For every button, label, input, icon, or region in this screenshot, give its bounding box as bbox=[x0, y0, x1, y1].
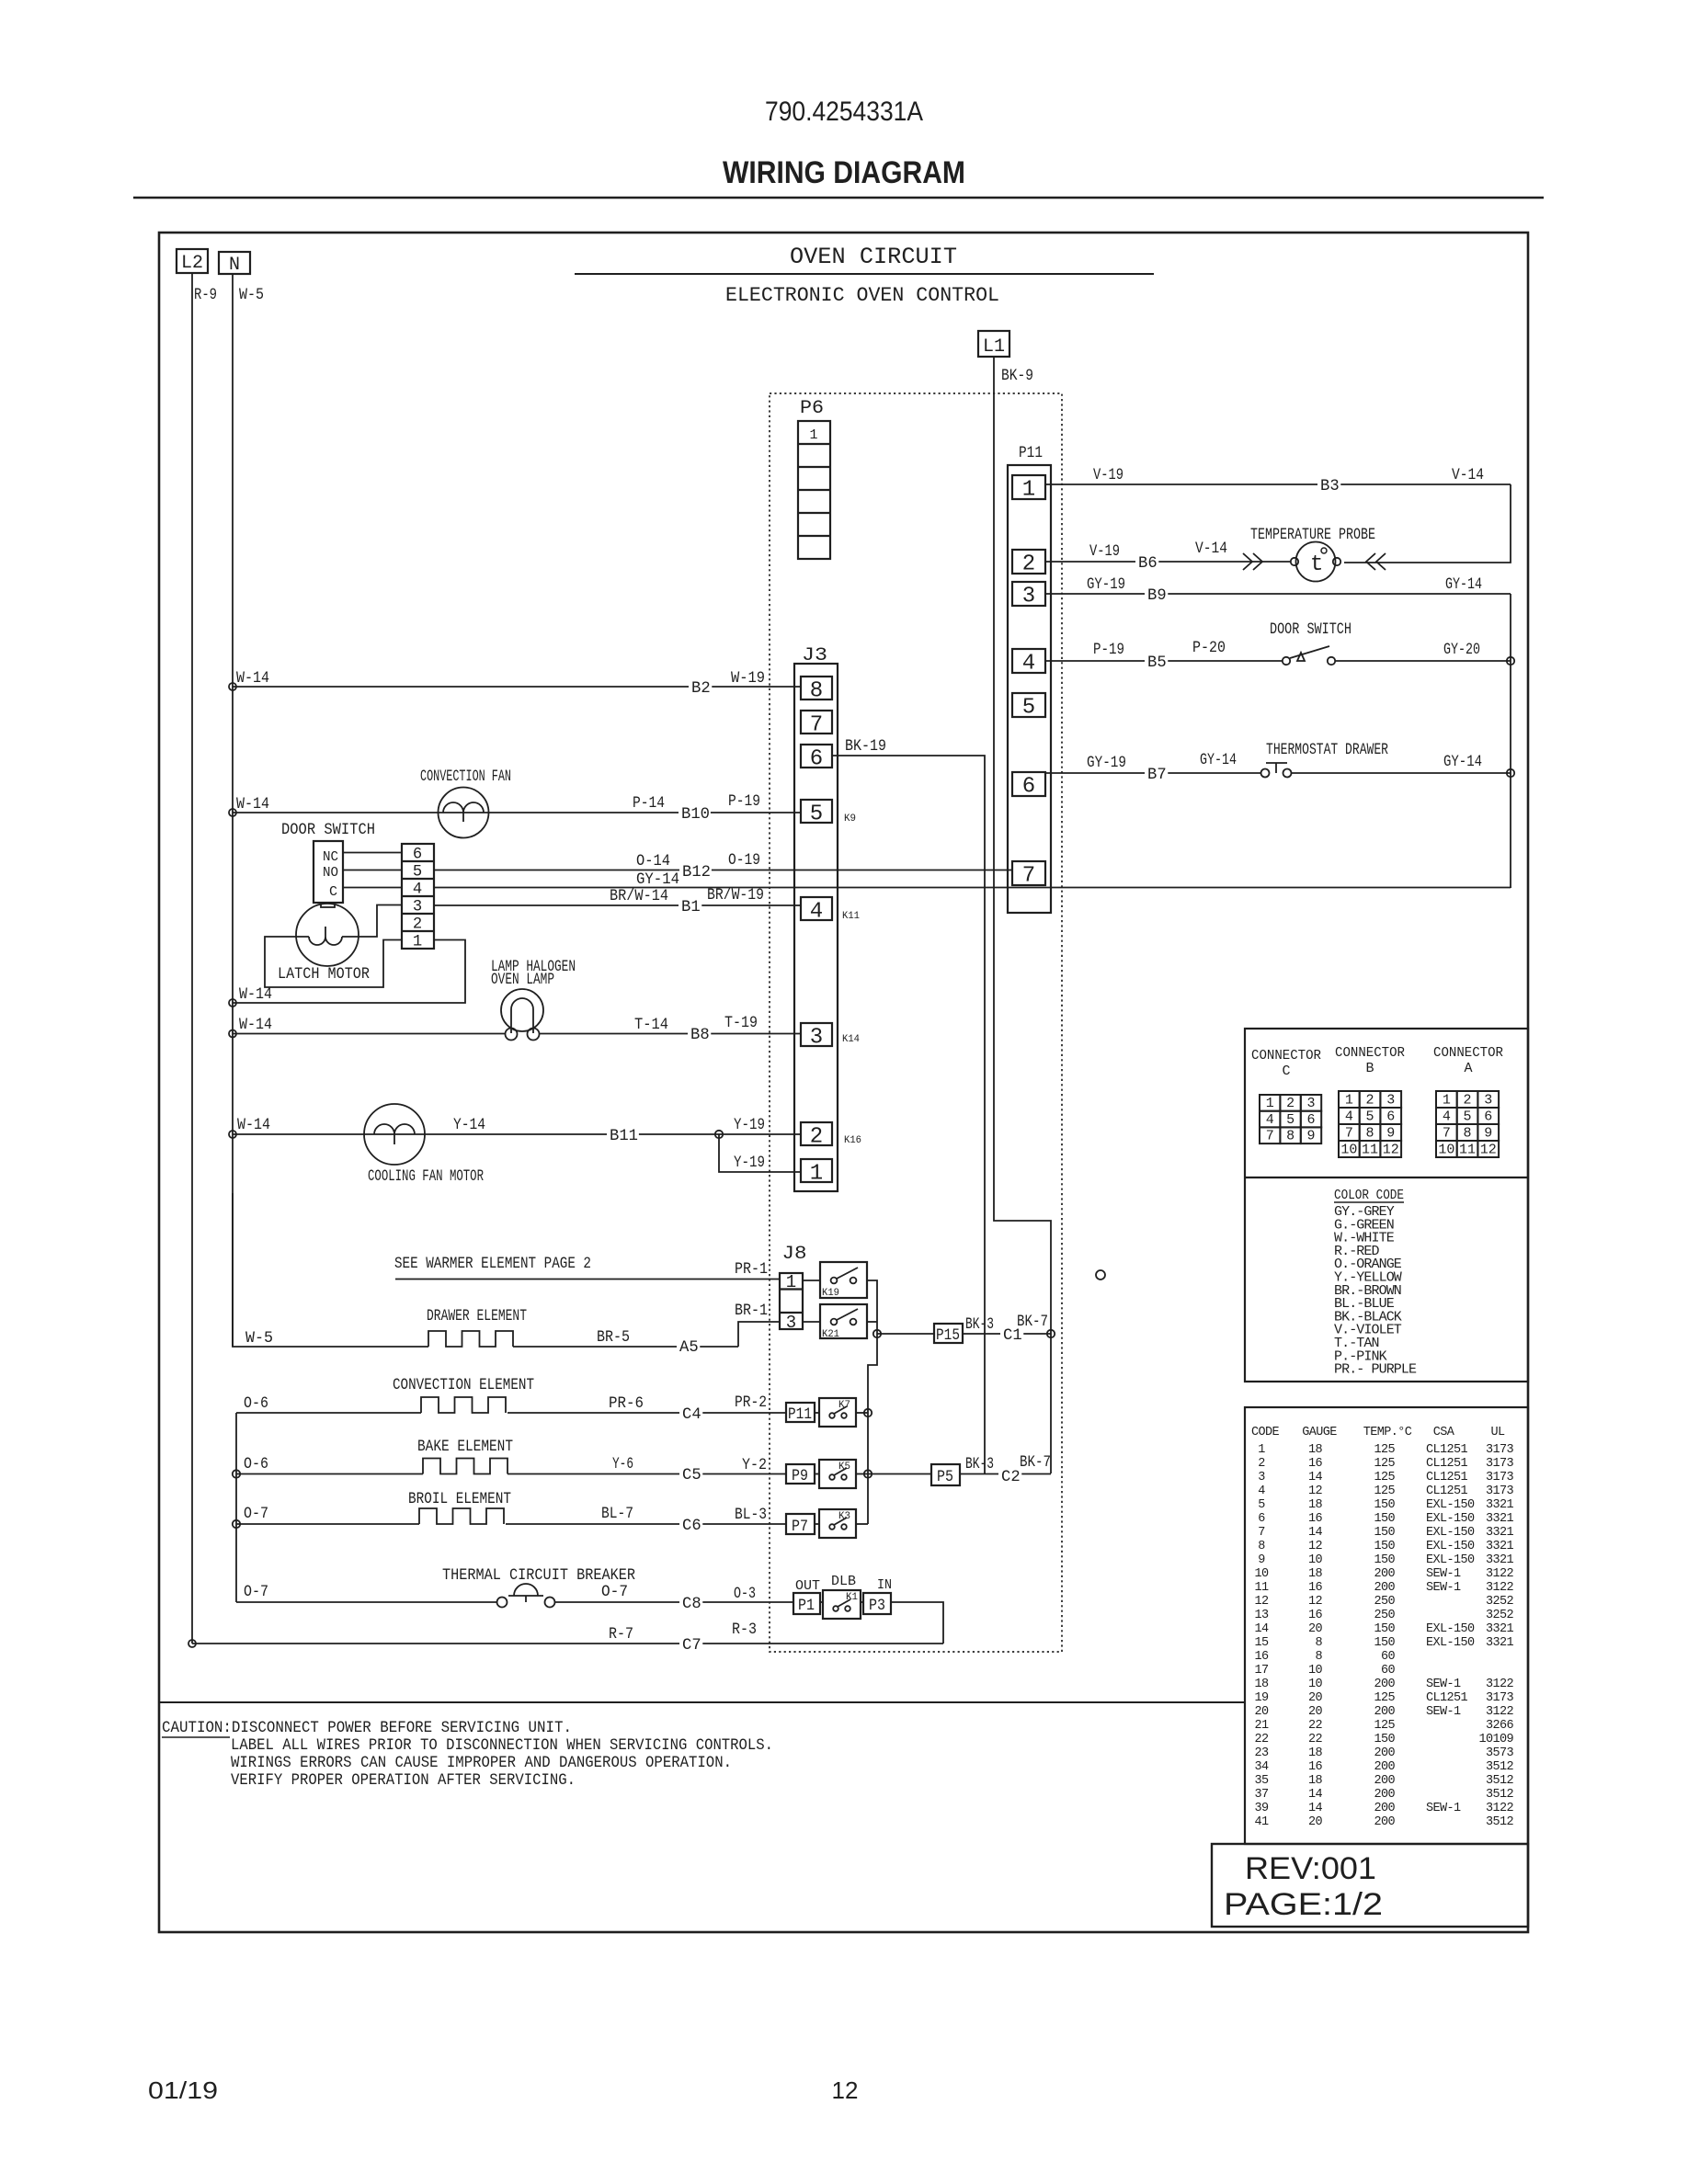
svg-text:3: 3 bbox=[786, 1313, 796, 1333]
svg-text:K11: K11 bbox=[842, 911, 860, 922]
svg-text:1: 1 bbox=[809, 427, 817, 443]
wire convection element PR-6 C4 PR-2 bbox=[236, 1412, 421, 1414]
svg-text:3252: 3252 bbox=[1486, 1595, 1514, 1609]
thermostat drawer T symbol bbox=[1266, 762, 1287, 764]
svg-text:18: 18 bbox=[1308, 1567, 1323, 1581]
svg-text:3321: 3321 bbox=[1486, 1498, 1514, 1512]
svg-text:Y-2: Y-2 bbox=[742, 1457, 767, 1474]
svg-text:R-9: R-9 bbox=[194, 287, 217, 304]
svg-text:7: 7 bbox=[1345, 1126, 1353, 1142]
svg-text:150: 150 bbox=[1374, 1512, 1395, 1526]
svg-text:P-14: P-14 bbox=[633, 795, 665, 813]
temperature probe terminal right bbox=[1333, 558, 1340, 565]
svg-text:1: 1 bbox=[1258, 1443, 1265, 1457]
svg-text:W-19: W-19 bbox=[731, 670, 765, 688]
svg-text:14: 14 bbox=[1308, 1788, 1323, 1802]
svg-text:150: 150 bbox=[1374, 1526, 1395, 1540]
svg-text:W-5: W-5 bbox=[245, 1330, 273, 1348]
latch motor winding bbox=[296, 927, 359, 945]
wire R-7 C7 R-3 bbox=[192, 1643, 943, 1644]
svg-text:6: 6 bbox=[1306, 1112, 1315, 1128]
plug P11 relay box bbox=[786, 1403, 815, 1422]
connector pinout panel divider bbox=[1245, 1177, 1528, 1178]
svg-text:O-7: O-7 bbox=[244, 1584, 268, 1601]
relay K3 box bbox=[819, 1509, 856, 1538]
connector P11 pin 3 bbox=[1012, 582, 1045, 606]
svg-text:t: t bbox=[1310, 552, 1323, 577]
wire W-14 riser to cell 1 right bbox=[233, 940, 465, 1004]
wire Y-19 branch to J3 pin 1 bbox=[719, 1134, 801, 1172]
label A5 bbox=[677, 1338, 700, 1354]
svg-text:1: 1 bbox=[810, 1162, 823, 1187]
color code underline bbox=[1334, 1201, 1404, 1203]
wire bake element Y-6 C5 Y-2 bbox=[236, 1473, 423, 1475]
svg-text:C2: C2 bbox=[1001, 1469, 1021, 1486]
page 2 reference circle bbox=[1096, 1270, 1105, 1280]
svg-text:CSA: CSA bbox=[1433, 1426, 1455, 1439]
svg-text:BL-3: BL-3 bbox=[735, 1507, 767, 1524]
convection fan motor winding bbox=[443, 802, 484, 822]
svg-text:12: 12 bbox=[1308, 1540, 1323, 1553]
svg-text:10: 10 bbox=[1340, 1143, 1357, 1158]
caution divider line bbox=[159, 1701, 1245, 1703]
wire J8 pin1 to K19 bbox=[803, 1280, 820, 1281]
svg-text:3: 3 bbox=[1484, 1093, 1492, 1109]
svg-text:L2: L2 bbox=[181, 253, 203, 274]
label C5 bbox=[679, 1466, 702, 1482]
wire P15 BK-3 C1 BK-7 bbox=[963, 1333, 1051, 1335]
svg-text:4: 4 bbox=[413, 882, 422, 899]
svg-text:34: 34 bbox=[1254, 1760, 1269, 1774]
svg-text:11: 11 bbox=[1254, 1581, 1269, 1595]
wire C2 to P5 bbox=[868, 1473, 931, 1475]
svg-text:9: 9 bbox=[1484, 1126, 1492, 1142]
wire BR/W-14 B1 BR/W-19 to J3 pin 4 bbox=[434, 904, 801, 906]
connector J3 pin 1 bbox=[801, 1159, 832, 1182]
svg-text:200: 200 bbox=[1374, 1760, 1395, 1774]
svg-text:W-14: W-14 bbox=[236, 796, 269, 813]
wire C to cell 4 bbox=[343, 887, 402, 889]
svg-text:GY-14: GY-14 bbox=[1445, 576, 1482, 594]
connector P11 pin 5 bbox=[1012, 693, 1045, 717]
label C8 bbox=[679, 1595, 702, 1610]
junction O-6 bake row bbox=[233, 1470, 240, 1477]
svg-text:1: 1 bbox=[1345, 1093, 1353, 1109]
svg-text:8: 8 bbox=[1315, 1650, 1322, 1664]
svg-text:CONVECTION FAN: CONVECTION FAN bbox=[420, 768, 511, 786]
wire P3 down to R-3 wire bbox=[891, 1602, 943, 1644]
svg-text:PR-1: PR-1 bbox=[735, 1261, 768, 1279]
svg-text:3: 3 bbox=[1306, 1096, 1315, 1111]
svg-text:16: 16 bbox=[1254, 1650, 1269, 1664]
caution underline bbox=[162, 1736, 230, 1738]
relay K1 box bbox=[823, 1590, 861, 1619]
svg-text:ELECTRONIC OVEN CONTROL: ELECTRONIC OVEN CONTROL bbox=[725, 284, 999, 307]
node L2 bottom bbox=[188, 1640, 196, 1647]
svg-text:14: 14 bbox=[1308, 1471, 1323, 1484]
label C1 bbox=[1000, 1326, 1023, 1342]
relay K7 contacts bbox=[829, 1413, 835, 1418]
thermal circuit breaker contact left bbox=[497, 1598, 508, 1608]
svg-text:41: 41 bbox=[1254, 1815, 1269, 1829]
svg-text:3573: 3573 bbox=[1486, 1746, 1514, 1760]
svg-text:4: 4 bbox=[810, 900, 823, 925]
svg-text:20: 20 bbox=[1308, 1691, 1323, 1705]
door switch to latch motor link bbox=[321, 903, 335, 907]
bake element heater symbol bbox=[423, 1459, 508, 1474]
svg-text:P-19: P-19 bbox=[728, 793, 760, 811]
svg-text:22: 22 bbox=[1308, 1733, 1323, 1746]
svg-text:8: 8 bbox=[1315, 1636, 1322, 1650]
svg-text:60: 60 bbox=[1381, 1664, 1396, 1678]
wire broil element BL-7 C6 BL-3 bbox=[236, 1523, 419, 1525]
connector A pin grid bbox=[1436, 1091, 1457, 1108]
connector J3 pin 3 bbox=[801, 1023, 832, 1046]
junction Y-19 split bbox=[715, 1131, 723, 1138]
svg-text:39: 39 bbox=[1254, 1802, 1269, 1815]
connector P11 pin 4 bbox=[1012, 649, 1045, 673]
svg-text:UL: UL bbox=[1490, 1426, 1505, 1439]
title rule bbox=[133, 197, 1544, 199]
wire C1 to P15 bbox=[877, 1333, 934, 1335]
junction GY-14 on right rail bbox=[1507, 769, 1514, 777]
svg-text:BAKE ELEMENT: BAKE ELEMENT bbox=[417, 1439, 513, 1456]
svg-text:B3: B3 bbox=[1320, 478, 1340, 495]
wire GY-14 long to right rail bbox=[434, 887, 1511, 890]
wire W-14 Y-14 B11 to junction bbox=[233, 1133, 801, 1135]
svg-text:A: A bbox=[1464, 1061, 1472, 1076]
svg-text:3173: 3173 bbox=[1486, 1443, 1514, 1457]
latch motor circle bbox=[296, 904, 359, 966]
svg-text:3122: 3122 bbox=[1486, 1705, 1514, 1719]
svg-text:O-3: O-3 bbox=[734, 1586, 756, 1603]
svg-text:3173: 3173 bbox=[1486, 1471, 1514, 1484]
wire K5 output bbox=[856, 1473, 868, 1475]
svg-text:K16: K16 bbox=[844, 1135, 861, 1146]
svg-text:PR-2: PR-2 bbox=[735, 1394, 767, 1412]
label B1 bbox=[679, 898, 701, 914]
svg-text:125: 125 bbox=[1374, 1691, 1395, 1705]
svg-text:O-6: O-6 bbox=[244, 1456, 268, 1473]
svg-text:O-14: O-14 bbox=[636, 853, 670, 870]
svg-text:W-14: W-14 bbox=[237, 1117, 270, 1134]
main border box bbox=[159, 233, 1528, 1932]
wire W-5 drawer element BR-5 A5 bbox=[233, 1193, 428, 1347]
svg-text:17: 17 bbox=[1254, 1664, 1269, 1678]
svg-text:200: 200 bbox=[1374, 1788, 1395, 1802]
wire cell 3 to latch motor right bbox=[359, 905, 402, 938]
svg-text:C7: C7 bbox=[682, 1637, 701, 1655]
svg-text:C5: C5 bbox=[682, 1467, 701, 1484]
svg-text:J8: J8 bbox=[782, 1244, 807, 1265]
wire NC to cell 6 bbox=[343, 852, 402, 854]
svg-text:20: 20 bbox=[1308, 1622, 1323, 1636]
wire W-14 B2 W-19 to J3 pin 8 bbox=[233, 686, 801, 688]
svg-text:GY-14: GY-14 bbox=[636, 871, 679, 889]
svg-text:CL1251: CL1251 bbox=[1426, 1457, 1468, 1471]
svg-text:11: 11 bbox=[1459, 1143, 1476, 1158]
svg-text:C4: C4 bbox=[682, 1406, 701, 1424]
svg-text:12: 12 bbox=[1383, 1143, 1399, 1158]
svg-text:6: 6 bbox=[1484, 1109, 1492, 1125]
svg-text:12: 12 bbox=[832, 2076, 859, 2104]
svg-text:20: 20 bbox=[1308, 1705, 1323, 1719]
svg-text:5: 5 bbox=[1286, 1112, 1295, 1128]
svg-text:18: 18 bbox=[1254, 1678, 1269, 1691]
svg-text:2: 2 bbox=[413, 916, 422, 934]
svg-text:Y-19: Y-19 bbox=[734, 1155, 765, 1172]
svg-text:CONNECTOR: CONNECTOR bbox=[1335, 1045, 1405, 1061]
connector J8 pins body bbox=[780, 1273, 803, 1329]
wire N rail W-5 bbox=[232, 274, 234, 1347]
svg-text:37: 37 bbox=[1254, 1788, 1269, 1802]
junction O-7 broil row bbox=[233, 1520, 240, 1528]
plug P9 box bbox=[786, 1464, 815, 1484]
svg-text:IN: IN bbox=[877, 1577, 892, 1593]
svg-text:K19: K19 bbox=[822, 1288, 839, 1299]
label C6 bbox=[679, 1517, 702, 1532]
svg-text:8: 8 bbox=[810, 679, 823, 704]
svg-text:150: 150 bbox=[1374, 1553, 1395, 1567]
svg-text:BK-7: BK-7 bbox=[1017, 1314, 1048, 1331]
connector chevrons left-pointing bbox=[1366, 553, 1375, 570]
svg-text:21: 21 bbox=[1254, 1719, 1269, 1733]
temperature probe terminal left bbox=[1291, 558, 1298, 565]
connector chevrons right-pointing bbox=[1243, 553, 1252, 570]
connector P6 body bbox=[798, 421, 830, 559]
svg-text:B7: B7 bbox=[1147, 767, 1167, 784]
svg-text:BR/W-19: BR/W-19 bbox=[707, 887, 764, 904]
svg-text:10109: 10109 bbox=[1478, 1733, 1513, 1746]
connector P11 pin 7 bbox=[1012, 861, 1045, 885]
svg-text:SEW-1: SEW-1 bbox=[1426, 1705, 1461, 1719]
connector J3 pin 5 bbox=[801, 800, 832, 823]
svg-text:01/19: 01/19 bbox=[148, 2076, 218, 2104]
svg-text:K14: K14 bbox=[842, 1034, 860, 1045]
wire GY-19 B9 GY-14 from P11 pin 3 bbox=[1045, 593, 1511, 595]
svg-text:V-19: V-19 bbox=[1093, 467, 1123, 484]
svg-text:B11: B11 bbox=[610, 1128, 638, 1145]
svg-text:NO: NO bbox=[323, 865, 338, 881]
node W-14 convection row bbox=[229, 809, 236, 816]
connector C pin grid bbox=[1260, 1095, 1280, 1111]
terminal N bbox=[219, 252, 250, 274]
wire K1 to P3 bbox=[861, 1601, 863, 1603]
revision box bbox=[1212, 1844, 1528, 1927]
svg-text:SEW-1: SEW-1 bbox=[1426, 1802, 1461, 1815]
svg-text:GY-14: GY-14 bbox=[1200, 752, 1237, 769]
wire J8 pin3 to K21 bbox=[803, 1321, 820, 1323]
svg-text:2: 2 bbox=[1464, 1093, 1472, 1109]
svg-text:3173: 3173 bbox=[1486, 1457, 1514, 1471]
svg-text:EXL-150: EXL-150 bbox=[1426, 1622, 1475, 1636]
svg-text:PR-6: PR-6 bbox=[609, 1395, 644, 1413]
svg-text:7: 7 bbox=[1443, 1126, 1451, 1142]
svg-text:6: 6 bbox=[810, 747, 823, 772]
svg-text:2: 2 bbox=[1366, 1093, 1374, 1109]
oven lamp terminal right bbox=[528, 1029, 540, 1041]
svg-text:4: 4 bbox=[1266, 1112, 1274, 1128]
svg-text:T-14: T-14 bbox=[634, 1017, 668, 1034]
svg-text:EXL-150: EXL-150 bbox=[1426, 1636, 1475, 1650]
connector P11 pin 1 bbox=[1012, 475, 1045, 499]
svg-text:WIRING DIAGRAM: WIRING DIAGRAM bbox=[723, 155, 965, 190]
plug P3 box bbox=[863, 1593, 891, 1614]
svg-text:O-19: O-19 bbox=[728, 852, 760, 870]
wire T-14 B8 T-19 to J3 pin 3 bbox=[540, 1033, 801, 1035]
svg-text:200: 200 bbox=[1374, 1815, 1395, 1829]
svg-text:C8: C8 bbox=[682, 1596, 701, 1613]
label C7 bbox=[679, 1636, 702, 1652]
connector J3 pin 2 bbox=[801, 1122, 832, 1145]
svg-text:23: 23 bbox=[1254, 1746, 1269, 1760]
svg-text:V-19: V-19 bbox=[1089, 543, 1120, 561]
svg-text:VERIFY PROPER OPERATION AFTER: VERIFY PROPER OPERATION AFTER SERVICING. bbox=[231, 1772, 576, 1790]
svg-text:3512: 3512 bbox=[1486, 1815, 1514, 1829]
wire O-14 B12 O-19 to P11 pin 7 bbox=[434, 870, 1012, 871]
svg-text:R-3: R-3 bbox=[732, 1621, 757, 1639]
svg-text:19: 19 bbox=[1254, 1691, 1269, 1705]
svg-text:1: 1 bbox=[1022, 478, 1035, 503]
junction GY-20 on right rail bbox=[1507, 657, 1514, 665]
label B9 bbox=[1145, 586, 1168, 602]
svg-text:B12: B12 bbox=[682, 864, 711, 882]
svg-text:200: 200 bbox=[1374, 1567, 1395, 1581]
svg-text:14: 14 bbox=[1308, 1802, 1323, 1815]
svg-text:B: B bbox=[1365, 1061, 1374, 1076]
svg-text:6: 6 bbox=[1258, 1512, 1265, 1526]
relay K1 contacts bbox=[833, 1606, 838, 1611]
svg-text:3: 3 bbox=[413, 899, 422, 916]
connector J3 pin 7 bbox=[801, 711, 832, 734]
svg-text:WIRINGS ERRORS CAN CAUSE IMPRO: WIRINGS ERRORS CAN CAUSE IMPROPER AND DA… bbox=[231, 1755, 732, 1772]
svg-text:18: 18 bbox=[1308, 1498, 1323, 1512]
svg-text:R-7: R-7 bbox=[609, 1626, 633, 1644]
svg-text:P-20: P-20 bbox=[1192, 640, 1226, 657]
svg-text:BROIL ELEMENT: BROIL ELEMENT bbox=[408, 1491, 511, 1508]
svg-text:200: 200 bbox=[1374, 1774, 1395, 1788]
relay K5 box bbox=[819, 1460, 856, 1488]
plug P15 box bbox=[934, 1324, 963, 1343]
svg-text:P1: P1 bbox=[798, 1598, 815, 1615]
svg-text:DOOR SWITCH: DOOR SWITCH bbox=[281, 822, 375, 839]
svg-text:6: 6 bbox=[413, 847, 422, 864]
svg-text:22: 22 bbox=[1308, 1719, 1323, 1733]
svg-text:4: 4 bbox=[1345, 1109, 1353, 1125]
svg-text:PAGE:1/2: PAGE:1/2 bbox=[1224, 1887, 1383, 1922]
wire NO to cell 5 bbox=[343, 870, 402, 871]
svg-text:1: 1 bbox=[1266, 1096, 1274, 1111]
svg-text:7: 7 bbox=[1266, 1129, 1274, 1144]
svg-text:9: 9 bbox=[1386, 1126, 1395, 1142]
svg-text:12: 12 bbox=[1480, 1143, 1497, 1158]
svg-text:CAUTION:DISCONNECT POWER BEFOR: CAUTION:DISCONNECT POWER BEFORE SERVICIN… bbox=[162, 1720, 572, 1737]
svg-text:CL1251: CL1251 bbox=[1426, 1691, 1468, 1705]
svg-text:2: 2 bbox=[1258, 1457, 1265, 1471]
svg-text:BK-9: BK-9 bbox=[1001, 368, 1033, 385]
svg-text:O-6: O-6 bbox=[244, 1395, 268, 1413]
wire GY-19 B7 GY-14 from P11 pin 6 bbox=[1045, 772, 1261, 774]
svg-text:PR.- PURPLE: PR.- PURPLE bbox=[1334, 1362, 1417, 1378]
wire gauge table box bbox=[1245, 1407, 1528, 1844]
wire V-14 return corner bbox=[1344, 484, 1511, 563]
svg-text:P6: P6 bbox=[800, 398, 824, 419]
svg-text:DRAWER ELEMENT: DRAWER ELEMENT bbox=[427, 1308, 527, 1325]
svg-text:P15: P15 bbox=[936, 1327, 960, 1345]
temperature probe body t-degree bbox=[1296, 542, 1336, 582]
svg-text:3122: 3122 bbox=[1486, 1802, 1514, 1815]
svg-text:W-5: W-5 bbox=[239, 287, 264, 304]
svg-text:12: 12 bbox=[1308, 1484, 1323, 1498]
label B6 bbox=[1135, 554, 1158, 570]
wire P9 to K5 bbox=[815, 1473, 819, 1475]
door switch connector cells bbox=[402, 844, 434, 949]
svg-text:1: 1 bbox=[1443, 1093, 1451, 1109]
junction relay outputs C1 bbox=[873, 1330, 881, 1337]
svg-text:3321: 3321 bbox=[1486, 1636, 1514, 1650]
svg-text:L1: L1 bbox=[983, 336, 1005, 358]
svg-text:THERMAL CIRCUIT BREAKER: THERMAL CIRCUIT BREAKER bbox=[442, 1567, 635, 1585]
svg-text:TEMP.°C: TEMP.°C bbox=[1363, 1426, 1412, 1439]
svg-text:14: 14 bbox=[1308, 1526, 1323, 1540]
oven lamp terminal left bbox=[506, 1029, 518, 1041]
svg-text:CONNECTOR: CONNECTOR bbox=[1433, 1045, 1503, 1061]
svg-text:2: 2 bbox=[1022, 552, 1035, 577]
svg-text:790.4254331A: 790.4254331A bbox=[765, 97, 923, 127]
svg-text:4: 4 bbox=[1258, 1484, 1265, 1498]
relay K5 contacts bbox=[829, 1474, 835, 1480]
svg-text:EXL-150: EXL-150 bbox=[1426, 1512, 1475, 1526]
svg-text:LABEL ALL WIRES PRIOR TO DISCO: LABEL ALL WIRES PRIOR TO DISCONNECTION W… bbox=[231, 1737, 773, 1755]
svg-text:P5: P5 bbox=[937, 1469, 953, 1486]
svg-text:18: 18 bbox=[1308, 1443, 1323, 1457]
svg-text:150: 150 bbox=[1374, 1733, 1395, 1746]
wire K21 output bbox=[867, 1321, 877, 1323]
svg-text:200: 200 bbox=[1374, 1705, 1395, 1719]
connector J3 pin 4 bbox=[801, 897, 832, 920]
svg-text:CL1251: CL1251 bbox=[1426, 1443, 1468, 1457]
wire W-14 P-14 B10 P-19 to J3 pin 5 bbox=[233, 812, 801, 813]
svg-text:OVEN CIRCUIT: OVEN CIRCUIT bbox=[790, 244, 957, 270]
svg-text:EXL-150: EXL-150 bbox=[1426, 1498, 1475, 1512]
svg-text:250: 250 bbox=[1374, 1609, 1395, 1622]
thermostat drawer contact right bbox=[1283, 769, 1292, 778]
connector J3 body bbox=[794, 664, 838, 1191]
door switch contact right bbox=[1328, 657, 1335, 665]
thermostat drawer contact left bbox=[1261, 769, 1270, 778]
svg-text:B6: B6 bbox=[1138, 555, 1158, 573]
svg-text:COLOR CODE: COLOR CODE bbox=[1334, 1188, 1404, 1203]
wire K7 output bbox=[856, 1412, 868, 1414]
svg-text:B1: B1 bbox=[681, 899, 701, 916]
svg-text:REV:001: REV:001 bbox=[1245, 1851, 1376, 1886]
svg-text:5: 5 bbox=[1258, 1498, 1265, 1512]
svg-text:13: 13 bbox=[1254, 1609, 1269, 1622]
svg-text:12: 12 bbox=[1254, 1595, 1269, 1609]
svg-text:150: 150 bbox=[1374, 1498, 1395, 1512]
wire breaker O-7 C8 O-3 to P1 bbox=[555, 1601, 793, 1603]
wire PR-1 to J8 pin 1 bbox=[395, 1279, 780, 1280]
svg-text:3321: 3321 bbox=[1486, 1540, 1514, 1553]
svg-text:16: 16 bbox=[1308, 1581, 1323, 1595]
svg-text:CL1251: CL1251 bbox=[1426, 1484, 1468, 1498]
svg-text:BR-1: BR-1 bbox=[735, 1302, 768, 1320]
svg-text:BK-19: BK-19 bbox=[845, 738, 886, 756]
electronic oven control board dashed outline bbox=[770, 393, 1062, 1652]
svg-text:EXL-150: EXL-150 bbox=[1426, 1540, 1475, 1553]
convection element heater symbol bbox=[421, 1397, 506, 1413]
svg-text:11: 11 bbox=[1362, 1143, 1378, 1158]
